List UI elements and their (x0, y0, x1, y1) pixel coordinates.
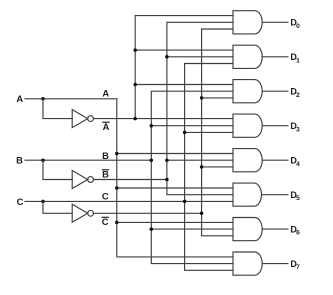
node C-bar/G2 junction (200, 96, 204, 100)
svg-text:0: 0 (296, 23, 300, 30)
wire input B horizontal (25, 159, 151, 161)
wire tap A-bar to G2 input 1 (135, 84, 233, 86)
wire bus A vertical (A wire corner down to G7 input 1 corner) (117, 99, 233, 257)
wire D2 output (262, 90, 288, 92)
wire tap C-bar to G2 input 3 (202, 97, 233, 99)
and-gate G0 (output D0) (233, 11, 262, 34)
and-gate G7 (output D7) (233, 252, 262, 275)
wire A junction down to inverter U1 input (43, 99, 72, 119)
svg-text:A: A (16, 93, 23, 104)
svg-text:C: C (17, 196, 24, 207)
inverter U3 (C) triangle (72, 204, 88, 222)
wire B junction down to inverter U2 input (43, 160, 72, 179)
wire D4 output (262, 159, 288, 161)
and-gate G5 (output D5) (233, 183, 261, 206)
node B input junction (41, 158, 45, 162)
inverter U3 bubble (88, 210, 94, 216)
wire input A horizontal (25, 98, 117, 100)
wire tap A to G6 input 1 (117, 221, 233, 223)
node B source junction (B wire joins bus B) (150, 158, 154, 162)
svg-text:5: 5 (296, 195, 300, 202)
and-gate G1 (output D1) (233, 45, 262, 68)
node A/G5 junction (115, 186, 119, 190)
node B-bar/G1 junction (165, 55, 169, 59)
wire D1 output (262, 56, 288, 58)
and-gate G6 (output D6) (233, 218, 262, 241)
wire D6 output (262, 228, 288, 230)
node B-bar source junction (U2 output joins bus B-bar) (165, 178, 169, 182)
wire tap C to G3 input 3 (185, 131, 233, 133)
svg-text:B: B (102, 150, 109, 161)
node A-bar/G2 junction (133, 83, 137, 87)
and-gate G2 (output D2) (233, 80, 262, 103)
node C/G3 junction (183, 131, 187, 135)
inverter U1 bubble (88, 116, 94, 122)
wire input C horizontal (runs through bus C into gate G5 input 3) (25, 200, 233, 202)
wire B-bar from U2 output to bus B-bar (94, 179, 167, 181)
wire bus B vertical (top corner to G2 input 2, down to G7 input 2 corner) (151, 91, 233, 263)
node A input junction (41, 97, 45, 101)
wire C-bar from U3 output to bus C-bar (94, 212, 202, 214)
inverter U2 bubble (88, 177, 94, 183)
wire bus B-bar vertical (top corner to G0 input 2, down to G5 input 2 corner) (167, 22, 233, 194)
node A/G6 junction (115, 221, 119, 225)
wire tap A to G5 input 1 (117, 187, 233, 189)
node C input junction (41, 200, 45, 204)
wire D5 output (262, 194, 288, 196)
inverter U2 (B) triangle (72, 171, 88, 189)
node C-bar/G4 junction (200, 165, 204, 169)
wire tap B to G6 input 2 (151, 228, 233, 230)
and-gate G4 (output D4) (233, 149, 262, 172)
node B/G6 junction (150, 227, 154, 231)
svg-text:A: A (102, 88, 109, 99)
wire tap C-bar to G4 input 3 (202, 166, 233, 168)
wire D0 output (262, 21, 288, 23)
node A-bar/G1 junction (133, 48, 137, 52)
node A-bar source junction (U1 output joins bus A-bar) (133, 117, 137, 121)
svg-text:3: 3 (296, 126, 300, 133)
node A/G4 junction (115, 152, 119, 156)
svg-text:B: B (16, 155, 23, 166)
wire bus C vertical (top corner to G1 input 3, down to G7 input 3 corner) (185, 64, 233, 271)
node C source junction (C wire joins bus C) (183, 200, 187, 204)
svg-text:A: A (103, 121, 110, 132)
wire tap A-bar to G1 input 1 (135, 49, 233, 51)
wire D7 output (262, 263, 288, 265)
svg-text:4: 4 (296, 161, 300, 168)
inverter U1 (A) triangle (72, 110, 88, 128)
wire tap A to G4 input 1 (117, 153, 233, 155)
node B/G3 junction (150, 124, 154, 128)
svg-text:2: 2 (296, 92, 300, 99)
and-gate G3 (output D3) (233, 114, 262, 137)
svg-text:C: C (102, 190, 109, 201)
wire tap B-bar to G4 input 2 (167, 159, 233, 161)
wire tap B to G3 input 2 (151, 125, 233, 127)
wire tap B-bar to G1 input 2 (167, 56, 233, 58)
wire D3 output (262, 125, 288, 127)
wire A-bar from U1 output through bus tap to gate G3 input 1 (94, 118, 234, 120)
wire bus C-bar vertical (top corner to G0 input 3, down to G6 input 3 corner) (202, 29, 233, 236)
wire bus A-bar vertical (top corner to G0 input 1) (135, 16, 233, 119)
node C-bar source junction (U3 output joins bus C-bar) (200, 212, 204, 216)
svg-text:7: 7 (296, 264, 300, 271)
wire C junction down to inverter U3 input (43, 201, 72, 213)
svg-text:1: 1 (296, 57, 300, 64)
node B-bar/G4 junction (165, 158, 169, 162)
svg-text:6: 6 (296, 230, 300, 237)
